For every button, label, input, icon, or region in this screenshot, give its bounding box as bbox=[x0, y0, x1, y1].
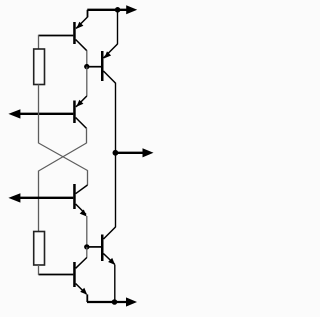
terminal arrow left upper (Q3 base) bbox=[8, 109, 73, 118]
terminal arrow top bbox=[87, 5, 137, 14]
wire cross-coupling R1 to Q4.c (X diagonal) bbox=[39, 143, 88, 171]
arrow Q6 emitter (NPN) bbox=[108, 258, 115, 265]
arrow Q4 emitter (NPN) bbox=[80, 210, 87, 217]
wire Q1 emitter vertical bbox=[87, 10, 89, 17]
arrow Q5 emitter (NPN) bbox=[80, 288, 87, 295]
node top junction bbox=[115, 7, 121, 13]
node bottom junction bbox=[112, 299, 118, 305]
wire Q6 emitter vertical bbox=[114, 265, 116, 303]
wire Q5 collector vertical bbox=[86, 247, 88, 258]
wire R2 top vertical bbox=[38, 171, 40, 232]
node A junction (Q1.c Q2.b Q3.e) bbox=[84, 64, 89, 69]
wire Q2 base horizontal bbox=[87, 66, 101, 68]
wire Q2 emitter vertical (right rail top) bbox=[117, 10, 119, 45]
arrow Q1 emitter (PNP) bbox=[76, 22, 83, 29]
transistor Q2 bar bbox=[101, 51, 104, 81]
wire R2 bottom vertical bbox=[38, 265, 40, 275]
wire Q3 emitter diagonal bbox=[76, 96, 87, 107]
wire Q2 collector diagonal bbox=[103, 71, 115, 83]
wire Q5 base horizontal bbox=[39, 274, 74, 276]
wire Q5 emitter diagonal bbox=[76, 284, 87, 295]
wire cross-coupling Q3.c to R2 (X diagonal) bbox=[39, 143, 87, 171]
transistor Q4 bar bbox=[73, 184, 76, 209]
wire Q1 collector diagonal bbox=[76, 40, 87, 51]
terminal arrow middle (output) bbox=[115, 148, 153, 157]
terminal arrow bottom bbox=[87, 297, 137, 306]
wire Q1 collector vertical bbox=[86, 50, 88, 66]
wire Q2 collector vertical bbox=[115, 83, 117, 153]
transistor Q3 bar bbox=[73, 101, 76, 124]
wire Q1 emitter diagonal bbox=[76, 17, 88, 29]
wire R1 top vertical bbox=[38, 35, 40, 50]
node B junction (output) bbox=[113, 150, 119, 156]
transistor Q6 bar bbox=[101, 235, 104, 262]
wire Q3 emitter vertical bbox=[86, 67, 88, 97]
wire Q2 emitter diagonal bbox=[104, 44, 118, 58]
resistor R2 bbox=[34, 232, 45, 266]
terminal arrow left lower (Q4 base) bbox=[8, 193, 73, 202]
wire Q6 base horizontal bbox=[87, 246, 101, 248]
wire Q4 collector diagonal bbox=[76, 185, 88, 194]
wire Q6 collector vertical (right rail lower) bbox=[115, 153, 117, 227]
wire Q4 emitter diagonal bbox=[76, 204, 87, 215]
wire Q6 collector diagonal bbox=[104, 227, 116, 239]
wire Q1 base horizontal bbox=[39, 35, 74, 37]
resistor R1 bbox=[34, 49, 45, 85]
transistor Q1 bar bbox=[73, 22, 76, 44]
wire Q3 collector vertical stub bbox=[86, 128, 88, 143]
wire Q4 emitter vertical bbox=[86, 216, 88, 247]
transistor Q5 bar bbox=[73, 262, 76, 287]
wire Q3 collector diagonal bbox=[76, 118, 87, 129]
node C junction (Q4.e Q5.c Q6.b) bbox=[84, 244, 89, 249]
wire Q5 emitter vertical bbox=[86, 294, 88, 302]
wire Q4 collector vertical stub bbox=[87, 170, 89, 185]
arrow Q2 emitter (PNP) bbox=[104, 51, 111, 58]
wire R1 bottom vertical bbox=[38, 85, 40, 144]
wire Q5 collector diagonal bbox=[76, 258, 87, 269]
arrow Q3 emitter (PNP) bbox=[76, 100, 83, 107]
wire Q6 emitter diagonal bbox=[103, 254, 114, 265]
